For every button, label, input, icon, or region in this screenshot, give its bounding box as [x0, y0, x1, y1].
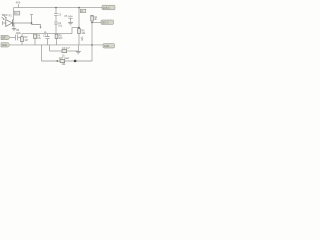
right column wire — [91, 15, 93, 61]
junction dot node B — [78, 27, 80, 29]
bottom loop left vertical — [41, 45, 43, 61]
wire R2 to bottom rail — [21, 42, 23, 45]
wire junction x56 drop — [55, 8, 57, 14]
light arrow 1 — [2, 17, 5, 20]
resistor R1 box beside left branch — [15, 11, 20, 15]
junction node dot A — [31, 22, 33, 24]
transistor column top bar — [90, 14, 93, 16]
wire C4 to mid rail — [55, 24, 57, 33]
wire mid-rail jog up — [72, 28, 79, 34]
node stub top bar — [30, 14, 33, 16]
capacitor C2 stub — [47, 34, 49, 37]
ground under photodiode — [12, 29, 16, 31]
capacitor C1 plates — [16, 35, 18, 41]
svg-text:BPW: BPW — [2, 14, 8, 17]
photodiode anode terminal bar — [2, 21, 4, 25]
resistor R4 body — [34, 34, 37, 38]
photodiode cathode bar — [12, 20, 14, 27]
wire R4 to bottom rail — [34, 39, 36, 45]
wire left branch down to photodiode cathode — [13, 8, 15, 20]
junction dot rail x56 — [55, 7, 57, 9]
capacitor C3 plates — [54, 14, 58, 16]
wire R5 to bottom rail — [56, 39, 58, 45]
photodiode anode wire — [3, 22, 6, 24]
svg-text:SIG O: SIG O — [102, 23, 109, 25]
capacitor C4 plates — [54, 22, 58, 24]
light arrow 2 — [4, 16, 6, 19]
wire C1 to divider node — [18, 37, 22, 39]
wiper square on gain line — [74, 60, 76, 62]
svg-text:ACT Gain: ACT Gain — [59, 57, 70, 60]
ground stub from bottom rail — [77, 45, 79, 51]
mid rail — [22, 33, 72, 35]
connector tag GND OUT — [103, 44, 115, 48]
connector tag INPUT — [1, 35, 10, 39]
wire elbow to arrow — [32, 25, 41, 28]
svg-text:INP: INP — [2, 38, 6, 40]
connector tag SIG OUT — [101, 20, 114, 24]
wire C2 to bottom rail — [47, 39, 49, 45]
wire drop x79 from rail — [78, 8, 80, 29]
capacitor C2 plates — [45, 37, 49, 39]
svg-text:10u: 10u — [58, 25, 63, 28]
inductor L1 box below rail — [80, 9, 86, 12]
wire R6 to bottom rail — [78, 34, 80, 45]
capacitor C5 plates — [68, 16, 72, 18]
svg-text:C6 4n7: C6 4n7 — [62, 47, 70, 50]
ground right of C6 — [76, 52, 81, 54]
wire to SIG label — [92, 22, 101, 24]
bottom loop horizontal — [42, 60, 93, 62]
resistor R6 body — [78, 29, 81, 34]
svg-text:GND: GND — [104, 46, 109, 48]
resistor R5 body — [55, 34, 58, 38]
svg-text:GND: GND — [2, 45, 7, 47]
svg-text:100k: 100k — [16, 32, 22, 35]
potentiometer RV1 body — [60, 59, 65, 62]
wire cathode branch down to ground — [13, 23, 15, 28]
svg-text:1M: 1M — [24, 39, 27, 42]
junction dot rail x79 — [78, 7, 80, 9]
input wire from connector — [10, 37, 15, 39]
junction dot gain line — [56, 60, 58, 62]
wire divider node — [21, 34, 23, 37]
resistor R2 body — [21, 37, 24, 42]
svg-text:4V5 O: 4V5 O — [103, 8, 110, 10]
ground under C5 — [68, 23, 73, 25]
junction dot bottom rail — [91, 44, 93, 46]
wire cathode to node — [14, 22, 32, 24]
wire C5 to ground — [70, 18, 72, 22]
transistor Q1 body — [91, 16, 94, 21]
svg-text:4V5: 4V5 — [16, 0, 21, 4]
inner loop wire to ground — [67, 50, 79, 52]
wire between C3 and C4 — [55, 16, 57, 22]
power net stub 4V5 — [18, 4, 20, 7]
junction dot sig — [91, 22, 93, 24]
photodiode D1 triangle — [6, 20, 12, 27]
inner loop horizontal — [50, 50, 63, 52]
bottom rail — [10, 44, 103, 46]
top supply rail — [14, 7, 103, 9]
capacitor C6 body — [62, 49, 67, 52]
connector tag GND IN — [1, 43, 10, 47]
inner loop vertical — [49, 45, 51, 51]
arrowhead of bias arrow — [39, 27, 41, 29]
node vertical wire — [31, 15, 33, 25]
connector tag 4V5 OUT — [102, 5, 115, 10]
